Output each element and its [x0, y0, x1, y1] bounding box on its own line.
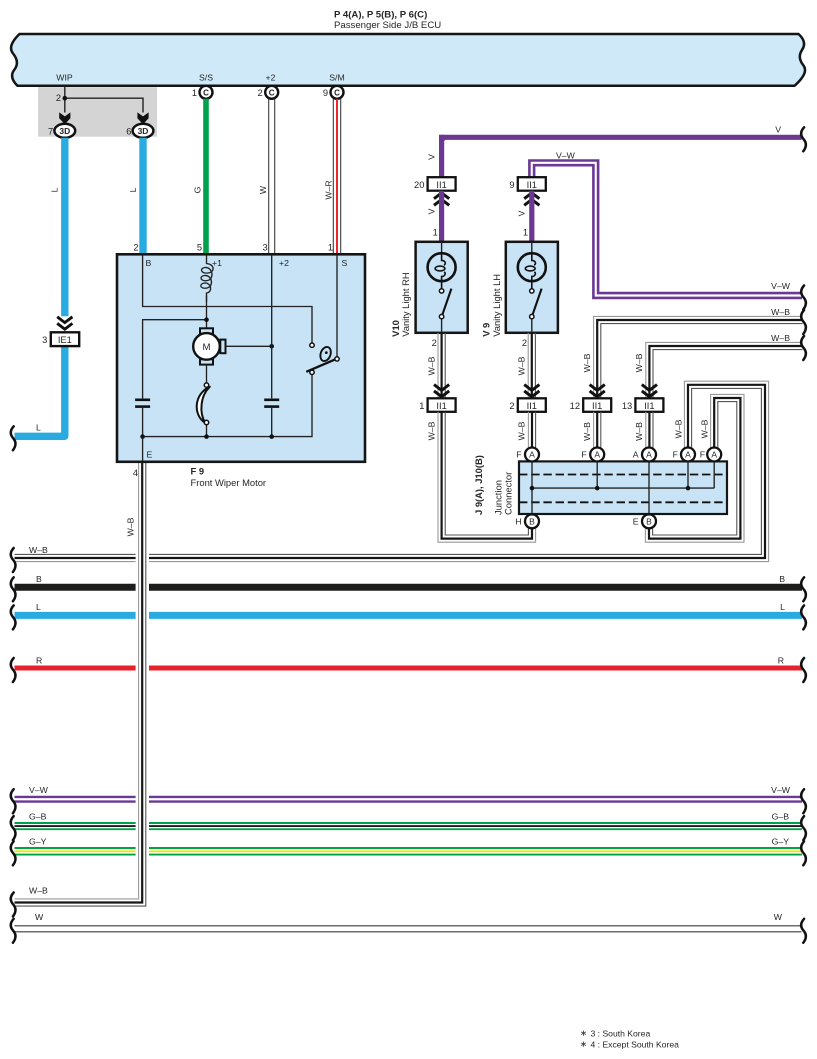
- bus wire R (red): [15, 666, 803, 671]
- svg-text:G–Y: G–Y: [29, 837, 47, 847]
- svg-text:S/M: S/M: [329, 73, 344, 83]
- svg-text:W–B: W–B: [771, 333, 790, 343]
- svg-text:C: C: [203, 89, 209, 98]
- svg-text:V: V: [775, 125, 781, 135]
- svg-text:W–B: W–B: [517, 421, 527, 440]
- bus wire G-B (green/black): [15, 822, 803, 824]
- svg-text:W–B: W–B: [582, 422, 592, 441]
- park switch upper contact: [310, 343, 314, 347]
- svg-text:WIP: WIP: [56, 73, 73, 83]
- svg-text:C: C: [334, 89, 340, 98]
- wire V (violet) from right break to V10: [442, 137, 802, 177]
- wire W-B II1 2 to junction A1: [535, 412, 537, 448]
- svg-text:1: 1: [419, 401, 424, 411]
- svg-text:4: 4: [133, 468, 138, 478]
- motor internal wire B to park switch contact: [143, 255, 312, 343]
- svg-text:M: M: [203, 342, 211, 353]
- svg-text:W: W: [258, 185, 268, 194]
- svg-text:V–W: V–W: [771, 281, 791, 291]
- svg-text:S: S: [342, 258, 348, 268]
- svg-text:F: F: [700, 450, 705, 460]
- chevrons into II1 2: [524, 385, 539, 391]
- arrow into 3D left: [59, 112, 70, 124]
- park switch pivot contact: [335, 357, 339, 361]
- svg-text:1: 1: [433, 227, 438, 237]
- svg-text:A: A: [594, 450, 600, 460]
- svg-text:Connector: Connector: [502, 472, 513, 515]
- svg-text:W–B: W–B: [634, 422, 644, 441]
- connector II1 pin 12: [583, 398, 611, 412]
- svg-text:9: 9: [509, 180, 514, 190]
- svg-text:W–B: W–B: [517, 356, 527, 375]
- svg-text:E: E: [147, 450, 153, 460]
- svg-text:4 : Except South Korea: 4 : Except South Korea: [591, 1040, 680, 1050]
- bus wire V-W (violet/white): [15, 796, 803, 798]
- svg-text:2: 2: [522, 338, 527, 348]
- svg-text:1: 1: [523, 227, 528, 237]
- svg-text:2: 2: [258, 88, 263, 98]
- wire W white +2 to motor: [274, 99, 276, 255]
- svg-text:II1: II1: [527, 401, 537, 411]
- svg-text:3: 3: [42, 335, 47, 345]
- connector C (S/S pin 1): [200, 86, 213, 99]
- S column: [336, 255, 338, 357]
- wire W-R white/red S/M to motor S: [340, 99, 342, 255]
- svg-text:13: 13: [622, 401, 632, 411]
- svg-text:G: G: [193, 186, 203, 193]
- svg-text:G–B: G–B: [772, 812, 790, 822]
- svg-text:V–W: V–W: [556, 150, 576, 160]
- svg-text:A: A: [529, 450, 535, 460]
- chevrons into II1 13: [642, 385, 657, 391]
- capacitor left: [142, 398, 144, 436]
- chevron arrows up into II1 20: [434, 193, 449, 199]
- cam crescent: [197, 387, 210, 423]
- svg-text:B: B: [646, 516, 652, 526]
- ground rail E: [143, 375, 312, 437]
- svg-text:E: E: [633, 517, 639, 527]
- junction dot node 2: [63, 96, 68, 101]
- connector C (S/M pin 9): [331, 86, 344, 99]
- svg-text:II1: II1: [436, 180, 446, 190]
- wire W-B right break to II1 13: [653, 350, 803, 399]
- junction pin circles top: [525, 448, 539, 462]
- svg-text:2: 2: [133, 243, 138, 253]
- svg-text:H: H: [515, 517, 521, 527]
- svg-text:W: W: [35, 912, 44, 922]
- svg-text:II1: II1: [436, 401, 446, 411]
- chevrons into II1 12: [590, 385, 605, 391]
- park switch lower contact: [310, 370, 314, 374]
- wire coil branch to left column: [143, 320, 207, 399]
- svg-text:2: 2: [509, 401, 514, 411]
- svg-text:7: 7: [48, 126, 53, 136]
- svg-text:5: 5: [197, 243, 202, 253]
- svg-text:12: 12: [570, 401, 580, 411]
- svg-text:20: 20: [414, 180, 424, 190]
- chevron arrows up into II1 9: [524, 193, 539, 199]
- wire W-B II1 1 to junction H/B: [445, 412, 528, 535]
- svg-text:V–W: V–W: [771, 785, 791, 795]
- svg-text:1: 1: [192, 88, 197, 98]
- connector II1 pin 13: [635, 398, 663, 412]
- capacitor right: [264, 398, 279, 401]
- svg-text:A: A: [685, 450, 691, 460]
- connector II1 pin 1: [428, 398, 456, 412]
- svg-text:F: F: [673, 450, 678, 460]
- svg-text:L: L: [128, 187, 138, 192]
- svg-text:F 9: F 9: [191, 466, 205, 477]
- wire motor to +2 column: [226, 345, 272, 347]
- connector C (+2 pin 2): [265, 86, 278, 99]
- svg-text:W–B: W–B: [771, 307, 790, 317]
- wire W-B II1 12 to junction A2: [600, 412, 602, 448]
- wire W-B V9 pin2 to II1 2: [534, 333, 536, 399]
- connector 3D pin 7: [54, 124, 75, 138]
- svg-text:W–B: W–B: [29, 886, 48, 896]
- wire W-B bus to junction connector pin A (loop): [15, 388, 762, 554]
- wire L (blue) from 3D pin6 to motor pin B: [139, 138, 146, 255]
- svg-text:II1: II1: [527, 180, 537, 190]
- svg-text:1: 1: [328, 243, 333, 253]
- svg-text:Passenger Side J/B ECU: Passenger Side J/B ECU: [334, 20, 441, 31]
- chevron arrows into IE1: [57, 317, 72, 323]
- svg-text:Vanity Light LH: Vanity Light LH: [491, 274, 502, 337]
- junction pin circles bottom: [525, 514, 539, 528]
- svg-text:C: C: [269, 89, 275, 98]
- svg-text:2: 2: [56, 93, 61, 103]
- wire W-B from motor pin 4 to left stub: [15, 462, 146, 906]
- junction internal wires: [532, 461, 714, 514]
- wire W-B junction pin E/B loop to pin A5: [653, 402, 737, 535]
- block J9(A) J10(B) Junction Connector: [519, 461, 727, 514]
- svg-text:+2: +2: [279, 258, 289, 268]
- wire E pin down: [142, 437, 144, 461]
- wire G green S/S to motor +1: [203, 99, 209, 255]
- svg-text:W–R: W–R: [324, 180, 334, 199]
- wiper park cam column: [206, 365, 208, 437]
- park switch cam eye: [318, 345, 332, 362]
- svg-text:L: L: [780, 602, 785, 612]
- svg-text:V–W: V–W: [29, 785, 49, 795]
- svg-text:B: B: [146, 258, 152, 268]
- svg-text:W–B: W–B: [634, 353, 644, 372]
- svg-text:3D: 3D: [138, 126, 149, 136]
- svg-text:A: A: [711, 450, 717, 460]
- svg-text:Vanity Light RH: Vanity Light RH: [400, 272, 411, 336]
- svg-text:W–B: W–B: [126, 517, 136, 536]
- svg-text:V: V: [427, 208, 437, 214]
- wire V stub into V10: [439, 191, 444, 242]
- wire W-B V10 pin2 to II1 1: [444, 333, 446, 399]
- svg-text:W–B: W–B: [582, 353, 592, 372]
- connector II1 pin 20: [428, 177, 456, 191]
- wire L (blue) from 3D pin7 to IE1 and left break: [61, 138, 68, 316]
- wire WIP branch: [65, 86, 143, 113]
- bus wire L (blue): [15, 612, 803, 619]
- svg-text:S/S: S/S: [199, 73, 213, 83]
- svg-text:+2: +2: [266, 73, 276, 83]
- arrow into 3D right: [137, 112, 148, 124]
- park switch lever: [306, 358, 338, 372]
- connector II1 pin 9: [518, 177, 546, 191]
- svg-text:W–B: W–B: [427, 421, 437, 440]
- svg-text:3: 3: [263, 243, 268, 253]
- svg-text:L: L: [50, 187, 60, 192]
- svg-text:IE1: IE1: [58, 335, 72, 345]
- bus wire B (black): [15, 584, 803, 591]
- wire V-W from II1 9 to right break: [529, 161, 802, 294]
- grey highlight box: [38, 87, 157, 137]
- connector IE1 pin 3: [51, 332, 79, 346]
- +1 column to motor: [206, 296, 208, 329]
- +2 column: [271, 255, 273, 437]
- svg-text:L: L: [36, 423, 41, 433]
- svg-text:3D: 3D: [59, 126, 70, 136]
- svg-text:L: L: [36, 602, 41, 612]
- svg-text:G–B: G–B: [29, 812, 47, 822]
- svg-text:B: B: [779, 574, 785, 584]
- bus wire W (white): [15, 925, 802, 927]
- connector II1 pin 2: [518, 398, 546, 412]
- svg-text:W–B: W–B: [427, 356, 437, 375]
- lamp V9 Vanity Light LH: [506, 242, 558, 333]
- wire W-B II1 13 to junction A3: [652, 412, 654, 448]
- svg-text:W: W: [774, 912, 783, 922]
- svg-text:A: A: [646, 450, 652, 460]
- svg-text:W–B: W–B: [29, 545, 48, 555]
- ECU banner Passenger Side J/B ECU: [11, 34, 805, 86]
- svg-text:9: 9: [323, 88, 328, 98]
- svg-text:B: B: [36, 574, 42, 584]
- svg-text:+1: +1: [212, 258, 222, 268]
- svg-text:A: A: [633, 450, 639, 460]
- svg-text:II1: II1: [592, 401, 602, 411]
- svg-text:R: R: [36, 656, 42, 666]
- motor M: [200, 328, 213, 333]
- svg-text:B: B: [529, 516, 535, 526]
- svg-text:V: V: [517, 210, 527, 216]
- block F9 Front Wiper Motor: [117, 254, 365, 461]
- svg-text:3 : South Korea: 3 : South Korea: [591, 1029, 651, 1039]
- svg-text:W–B: W–B: [674, 419, 684, 438]
- svg-text:R: R: [778, 656, 784, 666]
- wire W-B right break to II1 12: [601, 324, 803, 399]
- lamp V10 Vanity Light RH: [416, 242, 468, 333]
- wire V stub into V9: [529, 191, 534, 242]
- svg-text:2: 2: [432, 338, 437, 348]
- svg-text:V: V: [427, 154, 437, 160]
- svg-text:V 9: V 9: [480, 323, 491, 337]
- svg-text:F: F: [516, 450, 521, 460]
- svg-text:W–B: W–B: [700, 419, 710, 438]
- connector 3D pin 6: [133, 124, 154, 138]
- svg-text:J 9(A), J10(B): J 9(A), J10(B): [473, 455, 484, 515]
- chevrons into II1 1: [434, 385, 449, 391]
- svg-text:II1: II1: [644, 401, 654, 411]
- whiteout for wire crossing: [136, 548, 149, 915]
- svg-text:G–Y: G–Y: [772, 837, 790, 847]
- svg-text:F: F: [581, 450, 586, 460]
- svg-text:P 4(A), P 5(B), P 6(C): P 4(A), P 5(B), P 6(C): [334, 10, 427, 21]
- bus wire G-Y (green/yellow): [15, 847, 803, 849]
- footnote asterisk 4: [581, 1042, 586, 1047]
- coil (inductor) on +1: [201, 255, 213, 302]
- footnote asterisk 3: [581, 1031, 586, 1036]
- svg-text:Front Wiper Motor: Front Wiper Motor: [191, 477, 267, 488]
- svg-text:6: 6: [126, 126, 131, 136]
